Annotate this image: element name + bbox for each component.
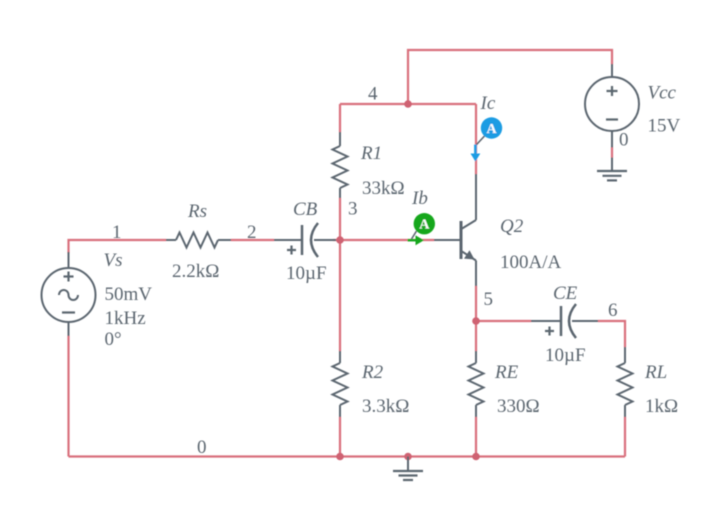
svg-text:1: 1 — [112, 222, 122, 243]
svg-text:50mV: 50mV — [105, 284, 153, 305]
svg-text:2: 2 — [247, 222, 257, 243]
svg-text:3.3kΩ: 3.3kΩ — [362, 396, 409, 417]
svg-text:Vcc: Vcc — [648, 83, 677, 104]
svg-text:Rs: Rs — [187, 201, 207, 222]
svg-text:Vs: Vs — [104, 250, 123, 271]
svg-text:A: A — [486, 122, 497, 137]
svg-text:5: 5 — [484, 289, 494, 310]
svg-text:Q2: Q2 — [500, 216, 524, 237]
svg-text:10µF: 10µF — [286, 263, 327, 284]
svg-text:6: 6 — [608, 300, 618, 321]
svg-text:3: 3 — [348, 199, 358, 220]
svg-text:33kΩ: 33kΩ — [362, 178, 405, 199]
svg-text:10µF: 10µF — [545, 345, 586, 366]
svg-text:330Ω: 330Ω — [497, 396, 540, 417]
svg-text:R2: R2 — [361, 362, 384, 383]
svg-text:15V: 15V — [648, 116, 681, 137]
svg-text:1kHz: 1kHz — [105, 308, 146, 329]
svg-text:100A/A: 100A/A — [500, 252, 562, 273]
svg-text:Ic: Ic — [480, 93, 496, 114]
svg-text:0: 0 — [619, 130, 629, 151]
svg-text:2.2kΩ: 2.2kΩ — [172, 261, 219, 282]
svg-text:A: A — [419, 217, 430, 232]
svg-text:RE: RE — [494, 362, 519, 383]
svg-text:CB: CB — [293, 199, 318, 220]
svg-text:4: 4 — [368, 84, 378, 105]
svg-text:0: 0 — [197, 437, 207, 458]
svg-text:CE: CE — [553, 283, 578, 304]
svg-text:Ib: Ib — [411, 188, 428, 209]
svg-text:RL: RL — [644, 362, 667, 383]
svg-text:R1: R1 — [360, 143, 382, 164]
svg-text:0°: 0° — [105, 329, 122, 350]
svg-text:1kΩ: 1kΩ — [645, 396, 678, 417]
